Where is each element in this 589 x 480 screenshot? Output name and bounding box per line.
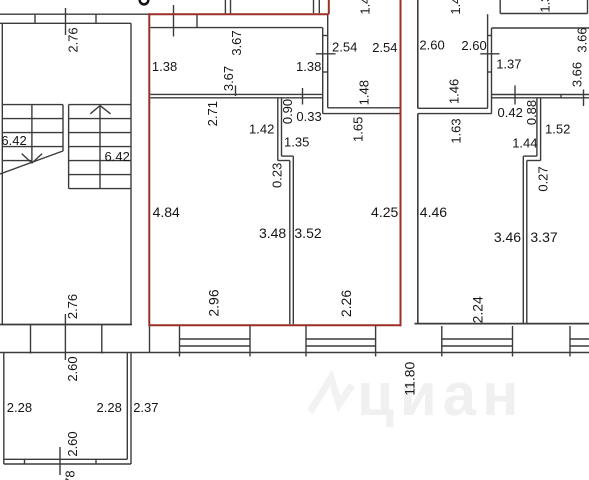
svg-text:2.26: 2.26: [338, 290, 354, 317]
top shaft box: [499, 0, 501, 14]
svg-text:1.37: 1.37: [538, 0, 553, 13]
right apt room right wall (double): [487, 14, 489, 108]
svg-text:3.52: 3.52: [294, 225, 321, 241]
right flight treads: [69, 118, 131, 120]
svg-text:2.54: 2.54: [332, 40, 357, 55]
red left wall: [148, 13, 150, 326]
left flight treads: [2, 118, 63, 120]
left block bottom wall: [0, 324, 132, 326]
svg-text:1.37: 1.37: [496, 57, 521, 72]
jog: [523, 155, 537, 157]
svg-text:1.63: 1.63: [449, 118, 464, 143]
svg-text:2.24: 2.24: [469, 296, 485, 323]
dim tick 2.60: [480, 53, 499, 55]
window box 3: [441, 326, 443, 357]
svg-text:3.67: 3.67: [221, 66, 236, 91]
svg-text:1.42: 1.42: [249, 122, 274, 137]
svg-text:1.48: 1.48: [357, 80, 372, 105]
red right wall: [400, 0, 402, 326]
shaft box at bathroom top: [313, 0, 315, 13]
svg-text:1.65: 1.65: [351, 117, 366, 142]
svg-text:11.80: 11.80: [402, 361, 418, 395]
svg-text:2.60: 2.60: [461, 38, 486, 53]
svg-text:0.23: 0.23: [270, 163, 285, 188]
dim tick 2.54: [316, 53, 336, 55]
svg-text:2.60: 2.60: [65, 431, 80, 456]
right apt inner top wall: [492, 27, 589, 29]
partition jog: [282, 155, 294, 157]
svg-text:0.27: 0.27: [536, 166, 551, 191]
bathroom left wall (double): [322, 28, 324, 114]
bottom room right wall (double): [126, 353, 128, 460]
svg-text:циан: циан: [357, 361, 524, 428]
partition upper segment: [277, 98, 279, 161]
svg-text:1.38: 1.38: [296, 59, 321, 74]
red apt inner top wall: [150, 27, 322, 29]
svg-text:2.28: 2.28: [97, 400, 122, 415]
north letter C: [140, 0, 149, 4]
left flight right edge: [62, 105, 64, 151]
stair top edge left: [2, 104, 63, 106]
jambs below bottom wall: [30, 325, 32, 354]
svg-text:2.60: 2.60: [419, 38, 444, 53]
red bottom wall: [149, 324, 400, 326]
window box 2: [305, 326, 307, 357]
tick below red corner: [149, 325, 151, 352]
hall bottom wall (double): [150, 93, 322, 95]
dim tick 2.60/2.78: [59, 447, 61, 475]
partition lower segment: [289, 161, 291, 325]
right flight left edge: [68, 105, 70, 189]
svg-text:0.90: 0.90: [280, 99, 295, 124]
svg-text:1.42: 1.42: [448, 0, 463, 15]
svg-text:3.46: 3.46: [494, 229, 521, 245]
ticks on hall wall: [514, 85, 516, 104]
svg-text:2.37: 2.37: [133, 400, 158, 415]
left flight center line + down arrow: [31, 105, 33, 164]
left block inner top wall: [0, 22, 131, 24]
svg-text:0.33: 0.33: [296, 109, 321, 124]
bathroom bottom wall (double): [328, 107, 401, 109]
svg-text:6.42: 6.42: [1, 133, 26, 148]
right flight bottom: [69, 188, 131, 190]
svg-text:3.67: 3.67: [229, 30, 244, 55]
bathroom wall jamb ticks: [323, 35, 328, 37]
svg-text:2.54: 2.54: [372, 40, 397, 55]
long facade line: [0, 352, 589, 354]
svg-text:1.44: 1.44: [512, 136, 537, 151]
jamb on top wall: [196, 14, 198, 27]
left block right wall: [130, 23, 132, 324]
svg-text:2.76: 2.76: [66, 27, 81, 52]
right apt room bottom wall (double): [418, 107, 488, 109]
red edge to image top: [328, 0, 330, 14]
right apt left wall: [417, 0, 419, 108]
jambs: [24, 459, 26, 464]
svg-text:1.38: 1.38: [152, 59, 177, 74]
window jamb: [34, 14, 36, 23]
svg-text:3.48: 3.48: [259, 225, 286, 241]
svg-text:3.66: 3.66: [570, 62, 585, 87]
shaft lines above top wall: [224, 0, 226, 14]
svg-text:2.71: 2.71: [205, 101, 220, 126]
svg-text:3.66: 3.66: [575, 27, 589, 52]
svg-text:0.42: 0.42: [498, 105, 523, 120]
dim tick 1.38/3.67: [173, 5, 175, 37]
svg-text:0.88: 0.88: [524, 100, 539, 125]
bottom room left wall: [3, 353, 5, 465]
red top wall: [149, 13, 328, 15]
tick on hall wall 2: [302, 88, 304, 105]
right apt partition upper segment: [536, 98, 538, 156]
right apt hall bottom wall (double): [492, 94, 589, 96]
left block left wall: [1, 23, 3, 324]
bottom room bottom wall (double): [4, 458, 128, 460]
svg-text:2.60: 2.60: [65, 356, 80, 381]
svg-text:4.25: 4.25: [371, 204, 398, 220]
right apt partition lower segment: [522, 156, 524, 324]
svg-text:1.35: 1.35: [284, 134, 309, 149]
dim tick 2.76 bottom / 2.60: [64, 314, 66, 360]
svg-text:1.52: 1.52: [545, 122, 570, 137]
red outline of apartment: [149, 0, 400, 326]
right apt bottom wall: [415, 323, 589, 325]
window box 1: [179, 326, 181, 357]
svg-text:2.76: 2.76: [65, 294, 80, 319]
svg-text:4.84: 4.84: [153, 204, 180, 220]
window jamb: [95, 14, 97, 23]
stair top edge right: [69, 104, 131, 106]
svg-text:3.37: 3.37: [530, 229, 557, 245]
watermark logo: [310, 378, 352, 412]
right flight center line + up arrow: [99, 106, 101, 189]
left block outer top wall: [0, 13, 149, 15]
svg-text:1.42: 1.42: [357, 0, 372, 15]
dim tick 2.76 top: [65, 8, 67, 35]
window box 4: [569, 326, 571, 357]
svg-text:2.96: 2.96: [205, 289, 221, 316]
svg-text:1.46: 1.46: [447, 79, 462, 104]
svg-text:2.28: 2.28: [7, 400, 32, 415]
stair break diagonal: [0, 151, 63, 174]
tick on hall wall: [235, 85, 237, 96]
jamb ticks: [488, 35, 492, 37]
svg-text:2.78: 2.78: [63, 470, 78, 480]
svg-text:4.46: 4.46: [420, 204, 447, 220]
svg-text:6.42: 6.42: [105, 149, 130, 164]
